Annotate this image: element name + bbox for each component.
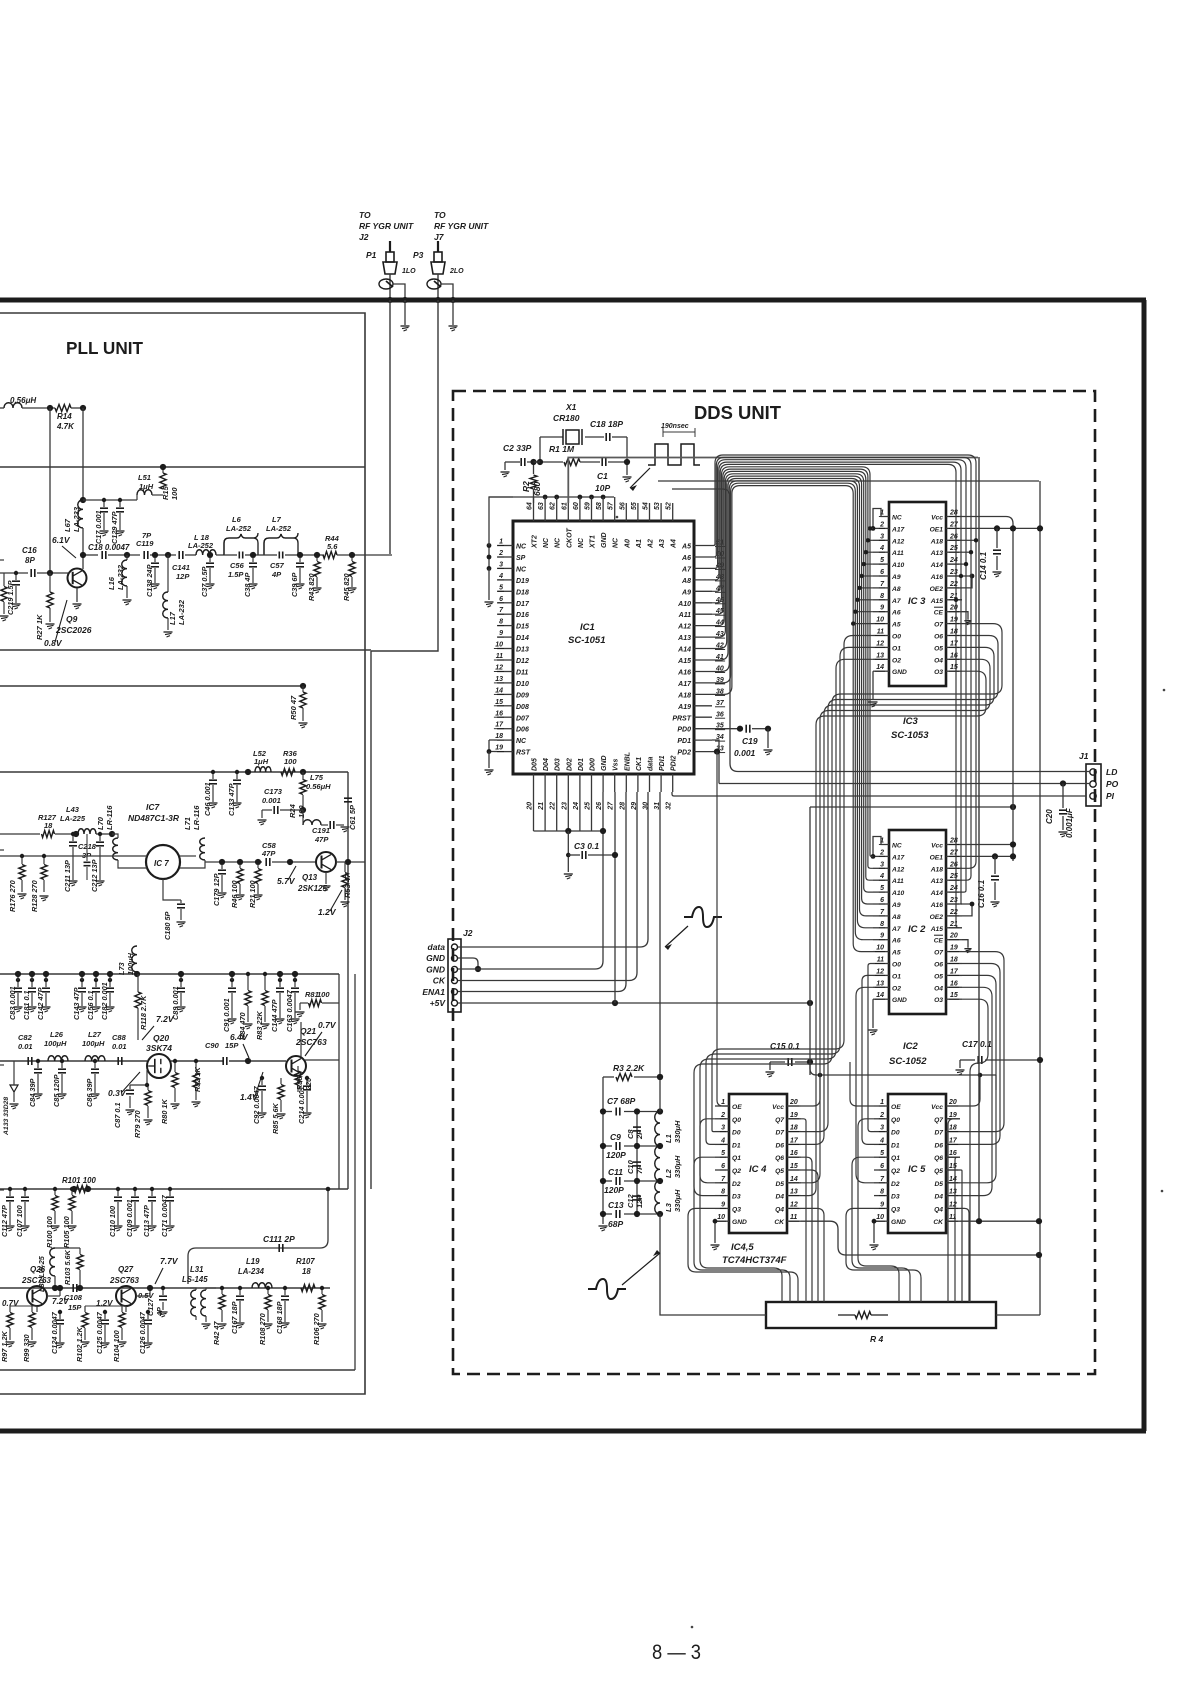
svg-text:R14: R14 bbox=[57, 412, 72, 421]
svg-text:11: 11 bbox=[877, 629, 884, 636]
svg-text:10: 10 bbox=[717, 1214, 725, 1221]
svg-text:LA-233: LA-233 bbox=[72, 506, 81, 532]
svg-text:14: 14 bbox=[876, 664, 884, 671]
svg-text:L27: L27 bbox=[88, 1030, 102, 1039]
svg-text:17: 17 bbox=[790, 1137, 799, 1144]
svg-text:C82: C82 bbox=[18, 1033, 33, 1042]
svg-text:C88: C88 bbox=[112, 1033, 127, 1042]
svg-text:C14 0.1: C14 0.1 bbox=[979, 551, 988, 580]
svg-text:12P: 12P bbox=[635, 1194, 644, 1208]
svg-text:A16: A16 bbox=[930, 574, 944, 581]
svg-text:62: 62 bbox=[550, 502, 557, 510]
svg-text:J2: J2 bbox=[463, 928, 473, 938]
svg-text:A11: A11 bbox=[891, 550, 904, 557]
svg-text:CK: CK bbox=[933, 1219, 944, 1226]
svg-text:32: 32 bbox=[666, 802, 673, 810]
svg-text:A16: A16 bbox=[930, 902, 944, 909]
svg-text:ENBL: ENBL bbox=[624, 752, 631, 771]
svg-text:A13: A13 bbox=[930, 878, 944, 885]
svg-text:16: 16 bbox=[495, 710, 503, 717]
svg-text:L31: L31 bbox=[190, 1265, 203, 1274]
svg-text:D6: D6 bbox=[934, 1142, 943, 1149]
svg-text:47P: 47P bbox=[314, 835, 329, 844]
svg-text:4P: 4P bbox=[155, 1307, 164, 1317]
svg-text:SC-1051: SC-1051 bbox=[568, 635, 606, 646]
svg-text:A18: A18 bbox=[677, 692, 691, 699]
svg-text:OE: OE bbox=[891, 1104, 901, 1111]
svg-text:C12: C12 bbox=[626, 1193, 635, 1208]
svg-text:PO: PO bbox=[1106, 779, 1119, 789]
svg-text:OE: OE bbox=[732, 1104, 742, 1111]
svg-text:D3: D3 bbox=[732, 1194, 741, 1201]
svg-text:17: 17 bbox=[950, 968, 959, 975]
svg-text:C163 0.0047: C163 0.0047 bbox=[285, 989, 294, 1032]
svg-text:A15: A15 bbox=[930, 926, 944, 933]
svg-text:2: 2 bbox=[720, 1112, 725, 1119]
svg-text:Q21: Q21 bbox=[300, 1026, 316, 1036]
svg-text:Q0: Q0 bbox=[732, 1117, 741, 1124]
svg-text:O0: O0 bbox=[892, 962, 901, 969]
svg-text:IC2: IC2 bbox=[903, 1041, 919, 1052]
svg-text:47P: 47P bbox=[261, 849, 276, 858]
svg-text:14: 14 bbox=[876, 992, 884, 999]
svg-text:2: 2 bbox=[879, 521, 884, 528]
svg-text:D0: D0 bbox=[891, 1130, 900, 1137]
svg-text:9: 9 bbox=[880, 933, 884, 940]
svg-text:17: 17 bbox=[950, 640, 959, 647]
svg-text:C211 13P: C211 13P bbox=[63, 860, 72, 892]
svg-text:NC: NC bbox=[892, 515, 902, 522]
svg-text:15: 15 bbox=[949, 1163, 957, 1170]
svg-text:A18: A18 bbox=[930, 866, 944, 873]
svg-text:A9: A9 bbox=[681, 589, 691, 596]
svg-text:28: 28 bbox=[619, 802, 626, 811]
svg-text:21: 21 bbox=[538, 802, 545, 811]
svg-text:A6: A6 bbox=[891, 938, 901, 945]
svg-text:18: 18 bbox=[302, 1267, 311, 1276]
svg-text:C129 47P: C129 47P bbox=[110, 511, 119, 544]
svg-text:D5: D5 bbox=[775, 1181, 784, 1188]
svg-text:0.56μH: 0.56μH bbox=[306, 782, 331, 791]
svg-text:TO: TO bbox=[359, 210, 371, 220]
svg-text:190nsec: 190nsec bbox=[661, 423, 689, 430]
svg-text:IC 3: IC 3 bbox=[908, 596, 926, 607]
svg-text:C84 39P: C84 39P bbox=[28, 1078, 37, 1107]
svg-text:+5V: +5V bbox=[430, 998, 447, 1008]
svg-text:A0: A0 bbox=[624, 539, 631, 549]
svg-text:C10: C10 bbox=[626, 1159, 635, 1174]
svg-text:18: 18 bbox=[950, 957, 958, 964]
svg-text:10: 10 bbox=[876, 1214, 884, 1221]
svg-text:O4: O4 bbox=[934, 985, 943, 992]
svg-text:A9: A9 bbox=[891, 574, 901, 581]
svg-text:14: 14 bbox=[790, 1176, 798, 1183]
svg-text:6: 6 bbox=[499, 596, 503, 603]
svg-text:12: 12 bbox=[876, 640, 884, 647]
svg-text:63: 63 bbox=[538, 502, 545, 510]
svg-text:A17: A17 bbox=[891, 526, 905, 533]
svg-text:C167 18P: C167 18P bbox=[230, 1301, 239, 1334]
svg-text:14: 14 bbox=[949, 1176, 957, 1183]
svg-text:6: 6 bbox=[721, 1163, 725, 1170]
svg-text:1μH: 1μH bbox=[254, 757, 269, 766]
svg-text:59: 59 bbox=[585, 502, 592, 510]
svg-text:5.7V: 5.7V bbox=[277, 876, 296, 886]
svg-text:Vss: Vss bbox=[613, 758, 620, 771]
svg-text:23: 23 bbox=[561, 802, 568, 811]
svg-text:XT2: XT2 bbox=[532, 535, 539, 549]
svg-text:Q2: Q2 bbox=[732, 1168, 741, 1175]
svg-text:A14: A14 bbox=[930, 562, 944, 569]
svg-text:27: 27 bbox=[608, 801, 615, 811]
svg-text:O5: O5 bbox=[934, 645, 943, 652]
svg-text:7P: 7P bbox=[635, 1164, 644, 1174]
svg-text:100μH: 100μH bbox=[126, 952, 135, 975]
svg-text:LA-225: LA-225 bbox=[60, 814, 86, 823]
svg-text:C90: C90 bbox=[205, 1041, 220, 1050]
svg-text:GND: GND bbox=[426, 964, 445, 974]
svg-text:O1: O1 bbox=[892, 645, 901, 652]
svg-text:57: 57 bbox=[608, 501, 615, 510]
svg-text:13: 13 bbox=[876, 652, 884, 659]
svg-text:0.7V: 0.7V bbox=[318, 1020, 337, 1030]
svg-text:56: 56 bbox=[619, 502, 626, 510]
svg-text:IC 7: IC 7 bbox=[154, 859, 169, 868]
svg-text:C181 0.1: C181 0.1 bbox=[22, 990, 31, 1020]
svg-text:A17: A17 bbox=[677, 681, 692, 688]
svg-text:L67: L67 bbox=[63, 518, 72, 532]
svg-text:GND: GND bbox=[892, 997, 907, 1004]
svg-text:52: 52 bbox=[666, 502, 673, 510]
svg-text:PRST: PRST bbox=[672, 715, 691, 722]
svg-text:PD0: PD0 bbox=[677, 727, 691, 734]
svg-text:2SC2026: 2SC2026 bbox=[55, 625, 92, 635]
svg-text:58: 58 bbox=[596, 502, 603, 510]
svg-text:L19: L19 bbox=[246, 1257, 260, 1266]
svg-text:R106 270: R106 270 bbox=[312, 1313, 321, 1345]
svg-text:27: 27 bbox=[949, 521, 959, 528]
svg-text:R107: R107 bbox=[296, 1257, 315, 1266]
svg-text:55: 55 bbox=[631, 502, 638, 510]
svg-text:3: 3 bbox=[880, 533, 884, 540]
svg-text:A15: A15 bbox=[930, 598, 944, 605]
svg-text:L26: L26 bbox=[50, 1030, 64, 1039]
svg-text:D6: D6 bbox=[775, 1142, 784, 1149]
svg-text:Q7: Q7 bbox=[934, 1117, 943, 1124]
svg-text:D11: D11 bbox=[516, 669, 528, 676]
svg-text:C85 120P: C85 120P bbox=[52, 1074, 61, 1107]
svg-text:C86 39P: C86 39P bbox=[85, 1078, 94, 1107]
svg-text:O6: O6 bbox=[934, 634, 943, 641]
svg-text:C180 5P: C180 5P bbox=[163, 911, 172, 940]
svg-text:10: 10 bbox=[495, 642, 503, 649]
svg-text:13: 13 bbox=[949, 1189, 957, 1196]
svg-text:SC-1052: SC-1052 bbox=[889, 1056, 927, 1067]
svg-text:6: 6 bbox=[880, 897, 884, 904]
svg-text:0.8V: 0.8V bbox=[44, 638, 63, 648]
svg-text:3: 3 bbox=[499, 561, 503, 568]
svg-text:GND: GND bbox=[892, 669, 907, 676]
svg-text:ND487C1-3R: ND487C1-3R bbox=[128, 813, 180, 823]
svg-text:8P: 8P bbox=[25, 556, 35, 565]
svg-text:PLL UNIT: PLL UNIT bbox=[66, 338, 143, 358]
svg-text:L43: L43 bbox=[66, 805, 80, 814]
svg-text:6.1V: 6.1V bbox=[52, 535, 71, 545]
svg-text:Q1: Q1 bbox=[732, 1155, 741, 1162]
svg-text:A2: A2 bbox=[648, 539, 655, 549]
svg-text:A6: A6 bbox=[681, 555, 691, 562]
svg-text:NC: NC bbox=[613, 537, 620, 548]
svg-text:2: 2 bbox=[879, 1112, 884, 1119]
svg-text:C173: C173 bbox=[264, 787, 283, 796]
svg-text:C13: C13 bbox=[608, 1200, 624, 1210]
svg-text:Q5: Q5 bbox=[934, 1168, 943, 1175]
svg-text:19: 19 bbox=[950, 945, 958, 952]
svg-text:15: 15 bbox=[790, 1163, 798, 1170]
svg-text:A5: A5 bbox=[891, 622, 901, 629]
svg-text:18: 18 bbox=[949, 1125, 957, 1132]
svg-text:C133 47P: C133 47P bbox=[227, 783, 236, 816]
svg-text:C7 68P: C7 68P bbox=[607, 1096, 636, 1106]
svg-text:12: 12 bbox=[949, 1201, 957, 1208]
svg-text:7.7V: 7.7V bbox=[160, 1256, 179, 1266]
svg-text:2LO: 2LO bbox=[449, 268, 464, 275]
svg-text:R86: R86 bbox=[295, 1076, 304, 1090]
svg-text:IC 2: IC 2 bbox=[908, 924, 926, 935]
svg-text:C18 0.0047: C18 0.0047 bbox=[88, 543, 130, 552]
svg-text:4: 4 bbox=[879, 1137, 884, 1144]
svg-text:2SC763: 2SC763 bbox=[109, 1276, 139, 1285]
svg-text:11: 11 bbox=[790, 1214, 797, 1221]
svg-text:37: 37 bbox=[716, 700, 725, 707]
svg-text:A18: A18 bbox=[930, 538, 944, 545]
svg-text:4: 4 bbox=[879, 873, 884, 880]
svg-text:D4: D4 bbox=[775, 1194, 784, 1201]
svg-text:26: 26 bbox=[596, 802, 603, 811]
svg-text:C156 0.1: C156 0.1 bbox=[86, 990, 95, 1020]
svg-text:LA-232: LA-232 bbox=[116, 564, 125, 590]
svg-text:C87 0.1: C87 0.1 bbox=[113, 1102, 122, 1128]
svg-text:0.001: 0.001 bbox=[262, 796, 281, 805]
svg-text:4: 4 bbox=[720, 1137, 725, 1144]
svg-text:20: 20 bbox=[948, 1099, 957, 1106]
svg-text:13: 13 bbox=[876, 980, 884, 987]
svg-text:36: 36 bbox=[716, 711, 724, 718]
svg-text:8: 8 bbox=[499, 619, 503, 626]
svg-text:C125 0.0047: C125 0.0047 bbox=[95, 1311, 104, 1354]
svg-text:C61 5P: C61 5P bbox=[348, 804, 357, 830]
svg-text:O3: O3 bbox=[934, 669, 943, 676]
svg-text:R43 820: R43 820 bbox=[307, 573, 316, 601]
svg-text:16: 16 bbox=[949, 1150, 957, 1157]
svg-text:Q20: Q20 bbox=[153, 1033, 169, 1043]
svg-text:D7: D7 bbox=[934, 1130, 943, 1137]
svg-text:C182 0.001: C182 0.001 bbox=[100, 982, 109, 1020]
svg-text:LA-232: LA-232 bbox=[177, 599, 186, 625]
svg-text:A8: A8 bbox=[891, 914, 901, 921]
svg-text:6.4V: 6.4V bbox=[230, 1032, 249, 1042]
svg-text:C142 47P: C142 47P bbox=[36, 987, 45, 1020]
svg-text:220: 220 bbox=[304, 1078, 313, 1091]
svg-text:1: 1 bbox=[880, 1099, 884, 1106]
svg-text:A1: A1 bbox=[636, 539, 643, 549]
svg-text:18: 18 bbox=[44, 821, 53, 830]
svg-text:O2: O2 bbox=[892, 657, 901, 664]
svg-text:SP: SP bbox=[516, 555, 526, 562]
svg-text:C83 0.001: C83 0.001 bbox=[8, 986, 17, 1020]
svg-text:PD1: PD1 bbox=[677, 738, 691, 745]
svg-text:C108: C108 bbox=[64, 1293, 83, 1302]
svg-text:9: 9 bbox=[499, 630, 503, 637]
svg-text:C8: C8 bbox=[626, 1129, 635, 1139]
svg-text:27: 27 bbox=[949, 849, 959, 856]
svg-text:25: 25 bbox=[585, 802, 592, 811]
svg-text:12: 12 bbox=[790, 1201, 798, 1208]
svg-text:A7: A7 bbox=[891, 926, 901, 933]
svg-text:D5: D5 bbox=[934, 1181, 943, 1188]
svg-text:9: 9 bbox=[880, 605, 884, 612]
svg-text:8: 8 bbox=[880, 921, 884, 928]
svg-text:R21 100: R21 100 bbox=[248, 880, 257, 908]
svg-text:NC: NC bbox=[578, 537, 585, 548]
svg-text:R53 47: R53 47 bbox=[343, 873, 352, 898]
svg-text:R45 820: R45 820 bbox=[342, 573, 351, 601]
svg-text:L70: L70 bbox=[96, 816, 105, 830]
svg-text:NC: NC bbox=[516, 566, 527, 573]
svg-text:Q5: Q5 bbox=[775, 1168, 784, 1175]
svg-text:NC: NC bbox=[516, 738, 527, 745]
svg-text:CKOT: CKOT bbox=[566, 527, 573, 548]
svg-text:C124 0.0047: C124 0.0047 bbox=[50, 1311, 59, 1354]
svg-text:ENA1: ENA1 bbox=[422, 987, 445, 997]
svg-text:61: 61 bbox=[561, 502, 568, 510]
svg-text:OE1: OE1 bbox=[930, 526, 944, 533]
svg-text:Q3: Q3 bbox=[732, 1206, 741, 1213]
svg-text:D1: D1 bbox=[891, 1142, 900, 1149]
svg-text:0.01: 0.01 bbox=[18, 1042, 33, 1051]
svg-text:NC: NC bbox=[555, 537, 562, 548]
svg-text:16: 16 bbox=[950, 652, 958, 659]
svg-text:CK: CK bbox=[433, 976, 446, 986]
svg-text:R101 100: R101 100 bbox=[62, 1176, 96, 1185]
svg-text:C168 18P: C168 18P bbox=[275, 1301, 284, 1334]
svg-text:Q4: Q4 bbox=[775, 1206, 784, 1213]
svg-text:O5: O5 bbox=[934, 973, 943, 980]
svg-text:4P: 4P bbox=[271, 570, 282, 579]
svg-text:GND: GND bbox=[891, 1219, 906, 1226]
svg-text:120P: 120P bbox=[606, 1150, 626, 1160]
svg-text:GND: GND bbox=[732, 1219, 747, 1226]
svg-text:C127: C127 bbox=[146, 1298, 155, 1316]
svg-text:J2: J2 bbox=[359, 232, 369, 242]
svg-text:C119: C119 bbox=[136, 539, 154, 548]
svg-text:3: 3 bbox=[880, 861, 884, 868]
svg-text:A8: A8 bbox=[681, 578, 691, 585]
svg-text:A12: A12 bbox=[891, 538, 905, 545]
svg-text:Q27: Q27 bbox=[118, 1265, 134, 1274]
svg-text:3: 3 bbox=[880, 1125, 884, 1132]
svg-text:15: 15 bbox=[950, 992, 958, 999]
svg-text:20: 20 bbox=[527, 802, 534, 811]
svg-text:1LO: 1LO bbox=[402, 268, 416, 275]
svg-text:A8: A8 bbox=[891, 586, 901, 593]
svg-text:A17: A17 bbox=[891, 854, 905, 861]
svg-text:16: 16 bbox=[950, 980, 958, 987]
svg-text:A13: A13 bbox=[930, 550, 944, 557]
svg-text:5: 5 bbox=[499, 584, 503, 591]
svg-text:C20: C20 bbox=[1045, 809, 1054, 824]
svg-text:15: 15 bbox=[950, 664, 958, 671]
svg-text:C141: C141 bbox=[172, 563, 190, 572]
svg-text:C11: C11 bbox=[608, 1167, 623, 1177]
svg-text:53: 53 bbox=[654, 502, 661, 510]
svg-text:11: 11 bbox=[496, 653, 503, 660]
svg-text:X1: X1 bbox=[565, 402, 577, 412]
svg-text:NC: NC bbox=[516, 544, 527, 551]
svg-text:Q13: Q13 bbox=[302, 873, 318, 882]
svg-text:5: 5 bbox=[880, 1150, 884, 1157]
svg-text:24: 24 bbox=[573, 802, 580, 811]
svg-text:R50 47: R50 47 bbox=[289, 695, 298, 720]
svg-text:A5: A5 bbox=[891, 950, 901, 957]
svg-text:19: 19 bbox=[790, 1112, 798, 1119]
svg-text:Q1: Q1 bbox=[891, 1155, 900, 1162]
svg-text:17: 17 bbox=[495, 722, 504, 729]
svg-text:54: 54 bbox=[643, 502, 650, 510]
svg-text:A12: A12 bbox=[677, 624, 691, 631]
svg-text:C113 47P: C113 47P bbox=[142, 1205, 151, 1237]
svg-text:IC 4: IC 4 bbox=[749, 1164, 767, 1175]
svg-text:60: 60 bbox=[573, 502, 580, 510]
svg-text:J1: J1 bbox=[1079, 751, 1089, 761]
svg-text:12P: 12P bbox=[176, 572, 190, 581]
svg-text:O2: O2 bbox=[892, 985, 901, 992]
svg-text:D13: D13 bbox=[516, 647, 529, 654]
svg-text:L17: L17 bbox=[168, 611, 177, 625]
svg-text:Q3: Q3 bbox=[891, 1206, 900, 1213]
svg-text:0.001: 0.001 bbox=[734, 748, 756, 758]
svg-text:IC4,5: IC4,5 bbox=[731, 1242, 754, 1253]
svg-text:A9: A9 bbox=[891, 902, 901, 909]
svg-text:15P: 15P bbox=[68, 1303, 82, 1312]
svg-text:RF YGR UNIT: RF YGR UNIT bbox=[359, 221, 414, 231]
svg-text:R79 270: R79 270 bbox=[133, 1110, 142, 1138]
svg-text:NC: NC bbox=[543, 537, 550, 548]
svg-text:C143 47P: C143 47P bbox=[72, 987, 81, 1020]
svg-text:IC 5: IC 5 bbox=[908, 1164, 926, 1175]
svg-text:Q7: Q7 bbox=[775, 1117, 784, 1124]
svg-text:12: 12 bbox=[876, 968, 884, 975]
svg-text:LR-116: LR-116 bbox=[105, 805, 114, 830]
svg-text:A7: A7 bbox=[681, 566, 692, 573]
svg-text:P3: P3 bbox=[413, 250, 424, 260]
svg-text:20: 20 bbox=[949, 933, 958, 940]
svg-text:D01: D01 bbox=[578, 758, 585, 771]
svg-text:19: 19 bbox=[495, 745, 503, 752]
svg-text:A12: A12 bbox=[891, 866, 905, 873]
svg-text:O7: O7 bbox=[934, 950, 943, 957]
svg-text:3: 3 bbox=[721, 1125, 725, 1132]
svg-text:R100 100: R100 100 bbox=[45, 1216, 54, 1248]
svg-text:D08: D08 bbox=[516, 704, 529, 711]
svg-text:R128 270: R128 270 bbox=[30, 880, 39, 912]
svg-text:120P: 120P bbox=[604, 1185, 624, 1195]
svg-text:PDI1: PDI1 bbox=[659, 755, 666, 771]
svg-text:C212 13P: C212 13P bbox=[90, 859, 99, 892]
svg-text:C38 4P: C38 4P bbox=[243, 573, 252, 597]
svg-text:C37 0.5P: C37 0.5P bbox=[200, 566, 209, 597]
svg-text:LA-252: LA-252 bbox=[226, 524, 252, 533]
